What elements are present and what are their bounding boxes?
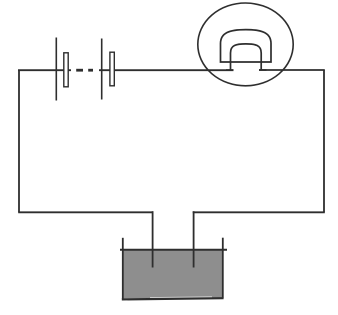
wire right edge	[323, 70, 325, 212]
wire dashed section (more cells)	[76, 69, 93, 72]
battery cell 2 long plate	[101, 39, 103, 100]
wire top segment from electromagnet right leg to right corner	[259, 69, 325, 71]
wire top segment from battery to electromagnet left leg	[99, 69, 234, 71]
wire left edge	[18, 70, 20, 212]
electromagnet enclosure circle	[198, 3, 293, 86]
wire bottom left segment	[18, 211, 153, 213]
electromagnet right leg foot	[259, 69, 267, 71]
beaker right wall	[222, 238, 224, 298]
beaker bottom	[122, 298, 224, 299]
liquid surface line	[120, 249, 227, 251]
battery cell 1 short plate	[64, 53, 68, 87]
battery cell 2 short plate	[110, 52, 114, 86]
electrode lead left wire	[152, 211, 154, 267]
wire bottom right segment	[193, 211, 325, 213]
electromagnet outer horseshoe core	[221, 30, 272, 62]
wire top segment through battery to dashed gap	[18, 69, 71, 71]
electrode lead right wire	[193, 211, 195, 267]
electromagnet left leg foot	[226, 69, 234, 71]
liquid highlight streak	[150, 296, 212, 299]
beaker electrolyte liquid	[123, 250, 223, 299]
battery cell 1 long plate	[55, 38, 57, 101]
electromagnet inner horseshoe coil	[231, 44, 262, 70]
beaker left wall	[122, 238, 124, 299]
